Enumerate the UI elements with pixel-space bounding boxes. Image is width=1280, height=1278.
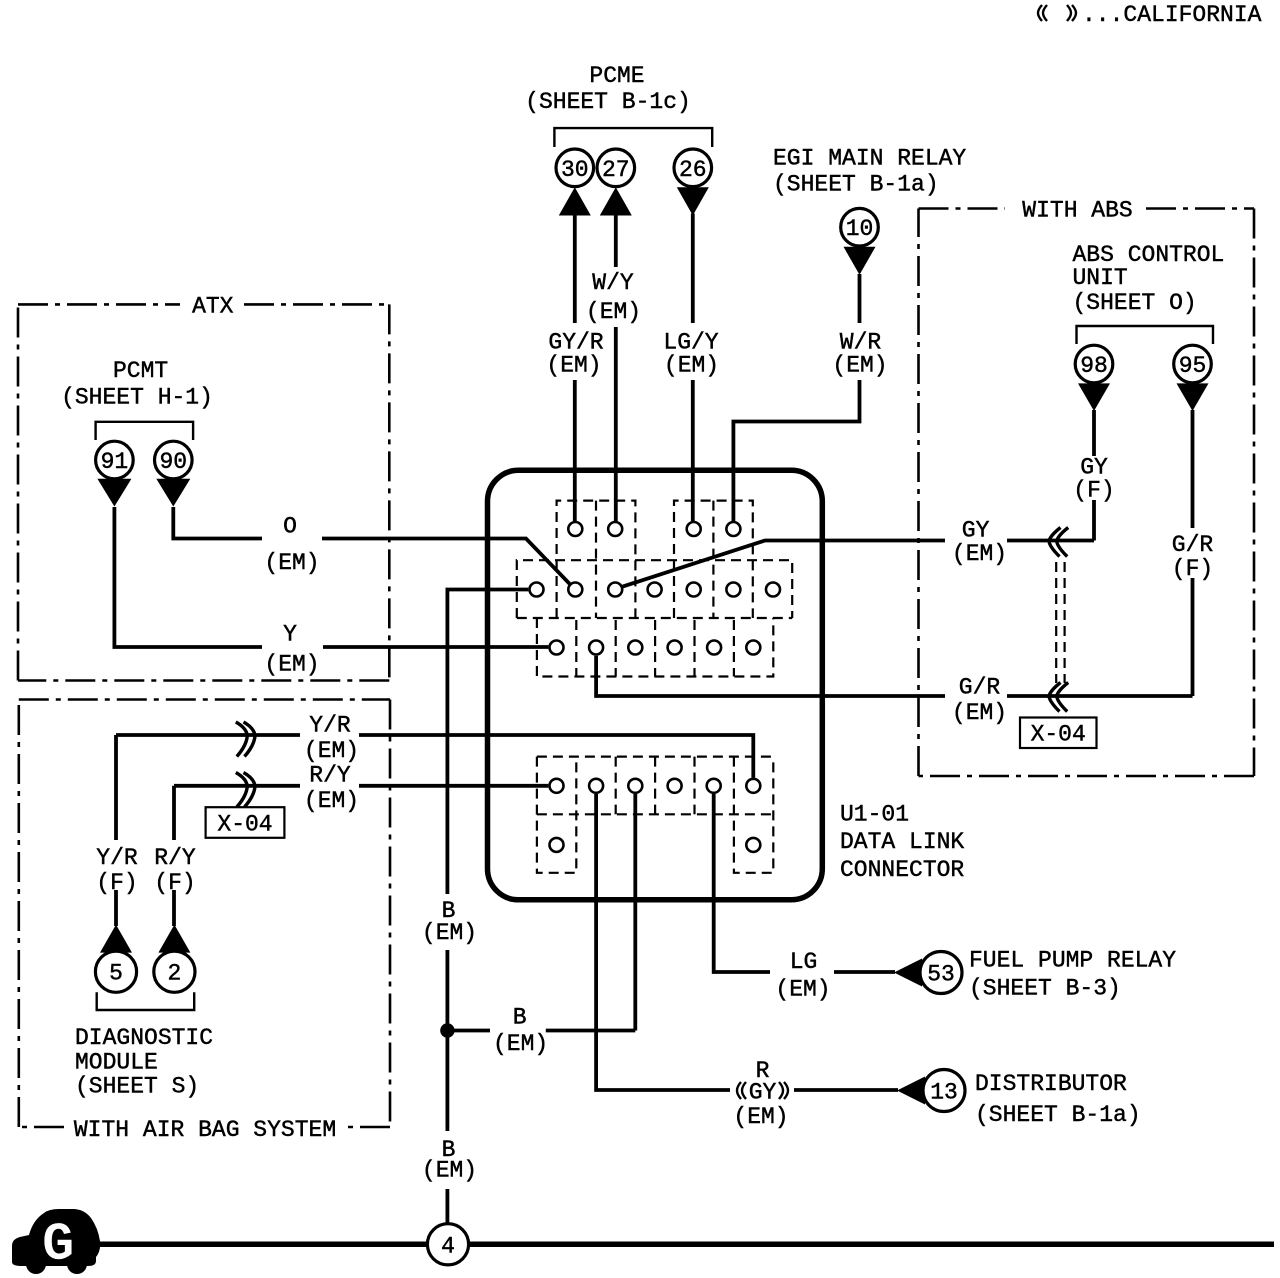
arrow up at 30	[559, 187, 591, 215]
pin circle 95	[1174, 345, 1212, 383]
svg-text:Y/R: Y/R	[309, 713, 351, 739]
svg-text:DATA LINK: DATA LINK	[840, 829, 964, 855]
wire LG/Y vertical	[691, 214, 695, 522]
svg-text:(EM): (EM)	[952, 700, 1007, 726]
arrow up at 2	[158, 925, 190, 953]
svg-text:PCMT: PCMT	[113, 358, 168, 384]
bottom relays	[422, 590, 1176, 1224]
svg-text:(F): (F)	[154, 870, 195, 896]
svg-text:(SHEET H-1): (SHEET H-1)	[61, 384, 213, 410]
pin circle 27	[597, 149, 635, 187]
pin circle 53	[920, 952, 962, 994]
svg-text:95: 95	[1179, 353, 1207, 379]
svg-text:(EM): (EM)	[264, 550, 319, 576]
svg-text:ATX: ATX	[192, 294, 234, 320]
double angle quote open	[1038, 5, 1042, 21]
pin circle 26	[674, 149, 712, 187]
svg-text:G/R: G/R	[959, 675, 1001, 701]
svg-text:(EM): (EM)	[832, 353, 887, 379]
svg-text:(F): (F)	[1073, 478, 1114, 504]
bracket over pins 91 90	[96, 422, 194, 440]
arrow down at 98	[1078, 383, 1110, 411]
dashed housing middle wide	[517, 560, 792, 618]
wire Y/R (EM)	[116, 735, 300, 926]
svg-text:98: 98	[1080, 353, 1108, 379]
wire R from row4 pin2	[596, 794, 898, 1090]
pin circle 30	[556, 149, 594, 187]
ground node circle 4	[427, 1224, 468, 1265]
arrow up at 27	[600, 187, 632, 215]
svg-text:LG: LG	[790, 949, 818, 975]
svg-text:13: 13	[930, 1080, 958, 1106]
PCME block	[525, 63, 719, 521]
dashed housing upper pairs	[557, 501, 636, 618]
arrow down at 91	[97, 479, 131, 507]
svg-text:2: 2	[167, 961, 181, 987]
X-04 connector label box	[206, 807, 285, 838]
wire GY(F) from 98	[1092, 410, 1096, 541]
double dashed linkage X-04	[1056, 562, 1064, 683]
svg-text:DIAGNOSTIC: DIAGNOSTIC	[75, 1025, 213, 1051]
svg-text:W/Y: W/Y	[592, 270, 634, 296]
svg-text:(SHEET B-1a): (SHEET B-1a)	[975, 1102, 1141, 1128]
svg-text:(EM): (EM)	[586, 299, 641, 325]
svg-text:O: O	[283, 514, 297, 540]
arrow down at 95	[1177, 383, 1209, 411]
wire R/Y (EM)	[174, 786, 300, 926]
X-04 connector label box	[1020, 718, 1097, 749]
svg-text:EGI MAIN RELAY: EGI MAIN RELAY	[773, 146, 966, 172]
svg-text:G/R: G/R	[1172, 532, 1214, 558]
svg-text:10: 10	[846, 216, 874, 242]
row4 pins	[550, 779, 564, 793]
inline connector chevron on G/R line	[1049, 683, 1061, 712]
svg-text:(SHEET S): (SHEET S)	[75, 1074, 199, 1100]
wire B branch to row4 pin3	[454, 794, 635, 1031]
svg-text:...CALIFORNIA: ...CALIFORNIA	[1082, 2, 1262, 28]
arrow into fuel pump relay	[894, 959, 922, 987]
svg-text:(EM): (EM)	[264, 652, 319, 678]
EGI relay block	[733, 146, 966, 522]
svg-text:(SHEET B-1a): (SHEET B-1a)	[773, 172, 939, 198]
svg-text:(EM): (EM)	[493, 1031, 548, 1057]
svg-text:(F): (F)	[96, 870, 137, 896]
svg-text:30: 30	[561, 157, 589, 183]
wire W/Y vertical	[614, 215, 618, 522]
svg-text:90: 90	[159, 449, 187, 475]
air bag box	[19, 700, 390, 1144]
double angle quote close	[1067, 5, 1071, 21]
ATX dashed box border	[18, 304, 389, 680]
svg-text:R/Y: R/Y	[309, 763, 351, 789]
bracket under pins 5 2	[97, 992, 195, 1010]
svg-text:(EM): (EM)	[952, 541, 1007, 567]
svg-text:UNIT: UNIT	[1073, 265, 1128, 291]
arrow down at 10	[844, 247, 876, 275]
dashed housing row4 cells and tall end boxes	[537, 757, 773, 873]
ground car symbol G	[12, 1209, 100, 1266]
arrow into distributor	[897, 1077, 925, 1105]
pin circle 91	[96, 441, 134, 479]
wire GY (EM) horizontal	[822, 539, 1094, 543]
svg-text:(EM): (EM)	[775, 977, 830, 1003]
svg-text:26: 26	[679, 157, 707, 183]
ground	[12, 1209, 1274, 1276]
wire LG from row4 pin5	[714, 794, 895, 972]
svg-text:53: 53	[927, 962, 955, 988]
svg-text:X-04: X-04	[217, 811, 272, 837]
wire G/R (EM) horizontal	[822, 694, 1192, 698]
label GY in double angle quotes	[737, 1082, 741, 1099]
junction node	[440, 1023, 454, 1037]
svg-text:(EM): (EM)	[304, 788, 359, 814]
inline connector chevron on Y/R line	[236, 722, 248, 757]
svg-text:FUEL PUMP RELAY: FUEL PUMP RELAY	[969, 948, 1176, 974]
pin circle 5	[95, 951, 136, 992]
row1 pins	[568, 522, 582, 536]
data link connector	[359, 470, 964, 900]
wire GY/R vertical	[573, 215, 577, 522]
ground bus wire	[99, 1242, 1274, 1248]
bracket over pins 30 27 26	[554, 128, 712, 147]
wire GY diagonal from row2 pin3	[623, 541, 823, 587]
svg-text:(SHEET B-1c): (SHEET B-1c)	[525, 89, 691, 115]
svg-text:Y/R: Y/R	[96, 845, 138, 871]
WITH AIR BAG SYSTEM dashed box border	[19, 700, 390, 1128]
svg-text:27: 27	[602, 157, 630, 183]
svg-text:(SHEET O): (SHEET O)	[1073, 290, 1197, 316]
inline connector chevron on R/Y line	[236, 773, 248, 808]
svg-text:R/Y: R/Y	[154, 845, 196, 871]
pin circle 98	[1075, 345, 1113, 383]
dashed housing row3 cells	[537, 618, 773, 677]
pin circle 10	[841, 208, 879, 246]
svg-text:WITH ABS: WITH ABS	[1022, 198, 1132, 224]
wire W/R	[733, 274, 859, 521]
row2 pins	[530, 583, 544, 597]
svg-text:U1-01: U1-01	[840, 802, 909, 828]
wire R/Y into row4 pin1	[359, 784, 548, 788]
bracket over pins 98 95	[1077, 326, 1214, 344]
U1-01 connector outline	[488, 470, 823, 900]
svg-text:(EM): (EM)	[546, 353, 601, 379]
row3 pins	[550, 641, 564, 655]
arrow up at 5	[100, 925, 132, 953]
svg-text:4: 4	[441, 1233, 455, 1259]
svg-text:DISTRIBUTOR: DISTRIBUTOR	[975, 1071, 1127, 1097]
WITH ABS dashed box border	[919, 209, 1255, 777]
svg-text:(EM): (EM)	[422, 1158, 477, 1184]
svg-text:91: 91	[101, 449, 129, 475]
svg-text:(EM): (EM)	[733, 1104, 788, 1130]
svg-text:B: B	[513, 1004, 527, 1030]
svg-text:MODULE: MODULE	[75, 1050, 158, 1076]
header CALIFORNIA note	[1038, 2, 1262, 28]
pin circle 13	[923, 1070, 965, 1112]
svg-text:WITH AIR BAG SYSTEM: WITH AIR BAG SYSTEM	[74, 1117, 336, 1143]
svg-text:(EM): (EM)	[304, 738, 359, 764]
wire Y from pin 91	[114, 507, 548, 647]
row5 pins	[550, 838, 564, 852]
inline connector chevron on GY line	[1049, 528, 1061, 557]
pin circle 2	[154, 951, 195, 992]
wire O from pin 90	[173, 507, 569, 584]
svg-text:GY: GY	[962, 518, 990, 544]
svg-text:G: G	[42, 1215, 74, 1276]
svg-text:CONNECTOR: CONNECTOR	[840, 857, 964, 883]
svg-text:Y: Y	[283, 622, 297, 648]
wire G/R(F) from 95	[1191, 410, 1195, 696]
svg-text:GY: GY	[749, 1080, 777, 1106]
svg-text:(SHEET B-3): (SHEET B-3)	[969, 976, 1121, 1002]
arrow down at 26	[677, 187, 709, 215]
svg-text:PCME: PCME	[589, 63, 644, 89]
svg-text:X-04: X-04	[1031, 722, 1086, 748]
pin circle 90	[155, 441, 193, 479]
svg-text:5: 5	[109, 961, 123, 987]
arrow down at 90	[156, 479, 190, 507]
wire G/R from row3 pin2	[596, 656, 822, 696]
svg-text:(EM): (EM)	[664, 353, 719, 379]
wire Y/R into row4 pin6	[359, 735, 753, 778]
ATX box	[18, 294, 570, 681]
svg-text:(F): (F)	[1172, 556, 1213, 582]
WITH ABS box	[822, 198, 1254, 777]
svg-text:(EM): (EM)	[422, 920, 477, 946]
wire B from row2 pin1	[447, 590, 528, 1224]
